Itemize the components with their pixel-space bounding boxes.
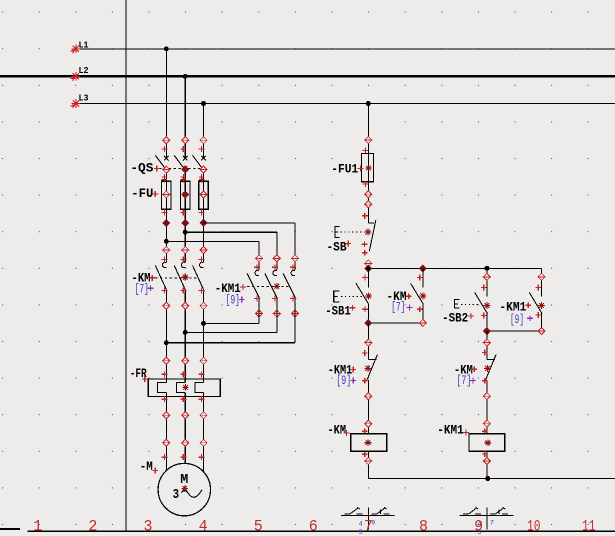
label KM NC ref plus marker <box>470 378 476 384</box>
svg-text:-KM1: -KM1 <box>437 422 464 437</box>
FU element pole2 (energised) <box>182 191 189 198</box>
wire SB1/KM-aux bottom link <box>368 322 423 324</box>
drawing frame bottom line <box>0 529 615 531</box>
wire phase V from L2 <box>177 76 186 465</box>
label coil KM1 plus marker <box>463 430 469 436</box>
SB2 actuator E <box>454 300 459 309</box>
svg-text:5: 5 <box>254 518 263 536</box>
KM aux terminals <box>417 275 423 313</box>
label FR plus marker <box>142 376 148 382</box>
wire control bottom rail <box>368 478 615 480</box>
svg-text:6: 6 <box>309 518 318 536</box>
FU element pole1 <box>162 191 170 198</box>
label L3 <box>79 94 89 104</box>
svg-text:1: 1 <box>33 518 42 536</box>
branch C coil top <box>482 420 491 434</box>
svg-text:4: 4 <box>199 518 208 536</box>
QS top terminals <box>161 137 207 152</box>
label motor plus marker <box>152 468 158 474</box>
label SB1 plus marker <box>350 305 356 311</box>
svg-text:-KM: -KM <box>328 422 347 437</box>
label KM1 aux ref plus marker <box>527 315 533 321</box>
svg-text:-M: -M <box>140 459 153 474</box>
label KM1 NC plus marker <box>350 367 356 373</box>
QS bottom terminal pole1 <box>162 166 170 173</box>
FR top terminals <box>161 357 207 377</box>
svg-text:2: 2 <box>88 518 97 536</box>
SB2 top diamond <box>481 273 491 290</box>
KM link dashed line <box>155 277 198 279</box>
KM1 aux actuated star <box>538 302 545 309</box>
wire control rail <box>368 268 541 270</box>
coil KM <box>351 434 387 452</box>
column ruler numbers <box>33 518 595 536</box>
branch C interlock top diamond <box>482 339 491 355</box>
FU1 top terminal <box>362 137 372 154</box>
label KM1 main <box>215 281 241 296</box>
KM aux bottom corner diamond <box>419 319 427 326</box>
contactor KM main blades <box>155 262 204 291</box>
branch C coil bottom <box>482 451 491 465</box>
wire branch C lower <box>486 331 488 478</box>
svg-text:-FU1: -FU1 <box>331 161 358 176</box>
label KM1 main plus marker <box>240 284 246 290</box>
svg-text:-SB: -SB <box>327 239 347 254</box>
wire SB2/KM1-aux bottom link <box>487 330 542 332</box>
svg-text:5: 5 <box>359 529 363 536</box>
FR output diamonds <box>162 412 208 419</box>
svg-text:8: 8 <box>419 518 428 536</box>
svg-text:10: 10 <box>527 518 541 536</box>
svg-text:7: 7 <box>490 519 494 526</box>
label KM1 aux plus marker <box>525 302 531 308</box>
SB2 actuator dotted link <box>461 304 479 306</box>
KM1 aux bottom corner diamond <box>537 328 545 335</box>
svg-text:L3: L3 <box>79 94 89 104</box>
label KM main <box>132 270 151 285</box>
junction phase V branch <box>183 230 188 235</box>
label KM1 NC ref plus marker <box>350 378 356 384</box>
wire KM1 pole2 to phase V <box>185 299 277 332</box>
node L2 marker <box>71 72 81 81</box>
label SB <box>327 239 347 254</box>
label coil KM plus marker <box>344 430 350 436</box>
contactor KM aux blade <box>411 283 424 304</box>
KM NC actuated star <box>484 365 491 372</box>
wire phase U to KM1 pole1 <box>166 241 259 269</box>
FU output junction diamonds <box>163 219 207 226</box>
junction L2 tap <box>183 74 188 79</box>
svg-text:[7]: [7] <box>135 283 149 297</box>
label SB2 plus marker <box>468 313 474 319</box>
wire L3 <box>76 103 615 105</box>
svg-text:-SB1: -SB1 <box>325 304 351 319</box>
node L1 marker <box>71 44 81 53</box>
wire SB2 branch <box>486 268 488 331</box>
svg-text:[9]: [9] <box>226 293 240 307</box>
fuse FU1 body <box>362 153 374 181</box>
start button SB2 blade <box>475 292 488 313</box>
branch A coil top <box>362 420 373 434</box>
label KM1 NC ref [9] <box>336 374 351 388</box>
KM1 link dashed line <box>247 286 290 288</box>
svg-text:3: 3 <box>173 488 180 503</box>
junction rail at SB2 <box>484 266 489 271</box>
label KM1 NC <box>328 363 353 378</box>
wire L2 <box>0 75 615 77</box>
svg-text:4: 4 <box>359 521 363 528</box>
label KM NC <box>454 363 473 378</box>
label FU plus marker <box>152 191 158 197</box>
junction phase U branch <box>164 239 169 244</box>
label QS <box>130 160 153 175</box>
label KM1 main ref [9] <box>226 293 240 307</box>
wire KM1 pole3 to phase U <box>166 299 295 343</box>
junction phase V return <box>183 330 188 335</box>
disconnector QS link dashed line <box>159 168 200 170</box>
junction control tap on L3 <box>366 101 371 106</box>
KM1 NC actuated star <box>364 365 371 372</box>
svg-text:[7]: [7] <box>391 301 405 315</box>
wire L1 <box>76 48 615 50</box>
label 3 inside motor <box>173 488 180 503</box>
KM1 cross-reference pin numbers <box>477 519 494 536</box>
coil KM1 <box>469 434 505 452</box>
FU top terminals <box>162 174 205 182</box>
wire phase U from L1 <box>158 49 167 472</box>
junction SB1 bottom <box>365 319 372 326</box>
FR actuated star <box>182 384 188 390</box>
KM main bottom terminals <box>161 287 207 309</box>
label KM aux plus marker <box>406 293 412 299</box>
label KM main ref [7] <box>135 283 149 297</box>
wire control branch from L3 <box>367 104 369 224</box>
label KM1 main ref plus marker <box>239 297 245 303</box>
svg-text:L2: L2 <box>79 66 89 76</box>
SB1 actuator E <box>334 291 340 302</box>
svg-text:-FU: -FU <box>131 186 153 201</box>
SB2 bottom plus <box>481 313 487 319</box>
SB actuator E <box>335 227 340 238</box>
svg-text:3: 3 <box>144 518 153 536</box>
KM aux actuated star <box>420 293 427 300</box>
junction rail at SB1 <box>365 265 372 272</box>
QS bottom terminal pole3 <box>199 166 207 173</box>
label KM NC ref [7] <box>456 374 471 388</box>
svg-text:[9]: [9] <box>510 313 524 327</box>
drawing frame vertical line <box>125 0 127 532</box>
fuse FU bodies <box>162 181 209 209</box>
junction phase U return <box>164 340 169 345</box>
motor wave symbol <box>181 490 202 497</box>
KM1 main bottom terminals <box>254 296 299 318</box>
junction L3 tap <box>201 101 206 106</box>
contactor KM1 aux blade <box>529 292 542 313</box>
junction phase W return <box>201 321 206 326</box>
wire phase V to KM1 pole2 <box>185 232 277 270</box>
motor M circle <box>158 463 210 515</box>
label KM NC plus marker <box>471 366 477 372</box>
label KM aux <box>387 289 407 304</box>
wire phase W to KM1 pole3 <box>204 223 296 270</box>
QS bottom terminal pole2 (energised) <box>182 165 189 173</box>
label KM1 aux <box>499 300 526 315</box>
SB top terminal <box>362 201 373 219</box>
contactor KM1 main blades <box>247 270 296 299</box>
KM link actuated star <box>182 274 189 281</box>
svg-text:[9]: [9] <box>336 374 351 388</box>
svg-text:9: 9 <box>474 518 483 536</box>
KM1 aux bottom plus <box>535 312 541 318</box>
label KM main plus marker <box>149 275 155 281</box>
label FR <box>130 366 147 381</box>
SB actuated star <box>365 229 372 236</box>
label KM main ref plus marker <box>148 285 154 291</box>
wire branch A lower <box>367 323 369 479</box>
wire KM aux branch <box>422 269 424 324</box>
svg-text:-QS: -QS <box>130 160 153 175</box>
KM1 coil contact cross-reference table <box>460 507 514 529</box>
label KM1 aux ref [9] <box>510 313 524 327</box>
branch A interlock bottom <box>362 378 373 400</box>
label SB2 <box>442 311 468 326</box>
wire KM1 aux branch <box>541 269 543 332</box>
wire SB1 branch <box>367 269 369 324</box>
label coil KM1 <box>437 422 464 437</box>
label M inside motor <box>180 472 188 488</box>
label FU <box>131 186 153 201</box>
SB actuator dotted link <box>341 231 365 233</box>
label SB plus marker <box>345 241 351 247</box>
KM main top terminals <box>161 247 207 263</box>
label coil KM <box>328 422 347 437</box>
KM cross-reference pin numbers <box>359 519 376 536</box>
SB1 terminals <box>362 275 368 313</box>
wire phase W from L3 <box>195 104 204 473</box>
SB1 actuator dotted link <box>341 295 363 297</box>
label FU1 plus marker <box>358 166 364 172</box>
label L2 <box>79 66 89 76</box>
motor actuated star <box>182 485 188 491</box>
branch C interlock bottom <box>482 378 491 400</box>
junction L1 tap <box>164 46 169 51</box>
stop button SB contact <box>368 220 376 251</box>
junction rail at KM aux <box>419 265 426 272</box>
SB2 actuated star <box>484 302 491 309</box>
start button SB1 blade <box>356 283 369 304</box>
junction SB2 bottom <box>483 328 490 335</box>
KM1 link actuated star <box>273 283 280 290</box>
interlock contact KM1 NC <box>367 355 377 380</box>
label motor -M <box>140 459 153 474</box>
node L3 marker <box>71 99 81 108</box>
label SB1 <box>325 304 351 319</box>
KM1 aux top diamond <box>535 273 545 290</box>
FU1 bottom terminal <box>362 181 372 198</box>
junction bottom rail <box>485 476 490 481</box>
SB bottom terminal <box>362 241 373 267</box>
branch A coil bottom <box>362 451 373 464</box>
motor input terminals <box>161 439 207 460</box>
FR bottom terminals <box>161 396 204 402</box>
disconnector QS blades <box>155 155 206 170</box>
KM1 main top terminals <box>254 255 299 270</box>
FU element pole3 <box>199 191 207 198</box>
FU bottom terminals <box>161 210 204 216</box>
SB1 actuated star <box>365 293 372 300</box>
wire KM1 pole1 to phase W <box>204 299 260 323</box>
label FU1 <box>331 161 358 176</box>
svg-text:11: 11 <box>582 518 596 536</box>
label QS plus marker <box>154 166 160 172</box>
thermal relay FR box <box>148 379 220 397</box>
label KM aux ref [7] <box>391 301 405 315</box>
svg-text:-SB2: -SB2 <box>442 311 468 326</box>
svg-text:[7]: [7] <box>456 374 471 388</box>
KM coil contact cross-reference table <box>341 507 395 529</box>
label KM aux ref plus marker <box>407 305 413 311</box>
interlock contact KM NC <box>486 355 496 380</box>
svg-text:7: 7 <box>364 518 373 536</box>
branch A interlock top diamond <box>362 339 373 356</box>
label L1 <box>79 41 90 51</box>
svg-text:L1: L1 <box>79 41 90 51</box>
